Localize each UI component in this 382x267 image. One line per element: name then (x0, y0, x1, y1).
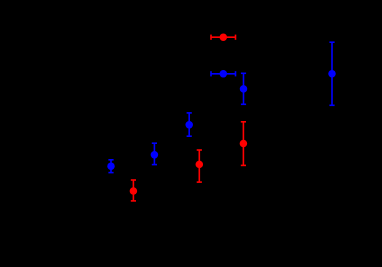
blue data point 2 errorbar (151, 143, 159, 164)
blue data point 5 errorbar (328, 42, 336, 105)
legend entry red series (211, 33, 236, 41)
red data point 3 errorbar (240, 122, 248, 166)
red data point 2 errorbar (196, 150, 204, 182)
blue data point 1 errorbar (107, 160, 115, 173)
red data point 1 errorbar (130, 180, 138, 201)
blue data point 4 errorbar (240, 73, 248, 104)
blue data point 3 errorbar (185, 113, 193, 136)
legend entry blue series (211, 70, 236, 78)
